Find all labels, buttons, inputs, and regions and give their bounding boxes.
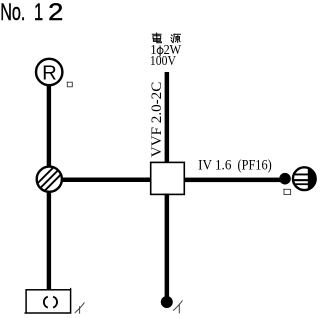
svg-text:100V: 100V [150, 53, 176, 68]
label イ at switch [173, 301, 182, 313]
label IV 1.6 (PF16) [198, 158, 272, 174]
wire: hatched circle to outlet box [61, 178, 152, 183]
svg-text:2: 2 [48, 0, 63, 26]
svg-text:IV 1.6: IV 1.6 [198, 158, 232, 174]
wire: lamp receptacle R down to hatched circle [47, 85, 51, 167]
svg-text:VVF 2.0-2C: VVF 2.0-2C [149, 82, 165, 158]
svg-text:R: R [42, 62, 57, 84]
title No. 12 [0, 0, 63, 26]
power source label 源 [171, 34, 181, 43]
power source label 1φ2W [150, 42, 182, 57]
wall outlet (circle with lines, right half filled) [293, 165, 320, 193]
outlet box (square) [151, 162, 185, 194]
wire: hatched circle down to ceiling rosette [47, 192, 51, 291]
power source label 電 [152, 33, 161, 43]
terminal dot at wall outlet (switch ロ) [279, 173, 291, 185]
label ロ at lamp receptacle [67, 82, 73, 87]
svg-text:(PF16): (PF16) [238, 158, 272, 174]
wire: outlet box down to switch イ [165, 194, 170, 300]
svg-text:1: 1 [34, 0, 43, 26]
svg-text:No.: No. [0, 0, 25, 26]
ceiling rosette 引掛シーリング (rect with parentheses) [24, 288, 70, 313]
wire: outlet box to right dot [184, 178, 286, 183]
label イ at ceiling rosette [75, 303, 84, 314]
wire: power feed vertical VVF 2.0-2C [165, 72, 170, 163]
VVF joint box (hatched circle) [33, 156, 65, 203]
switch イ (black dot) [161, 296, 173, 308]
label ロ at wall outlet [283, 189, 290, 195]
lamp receptacle R (circle with R) [36, 59, 62, 85]
